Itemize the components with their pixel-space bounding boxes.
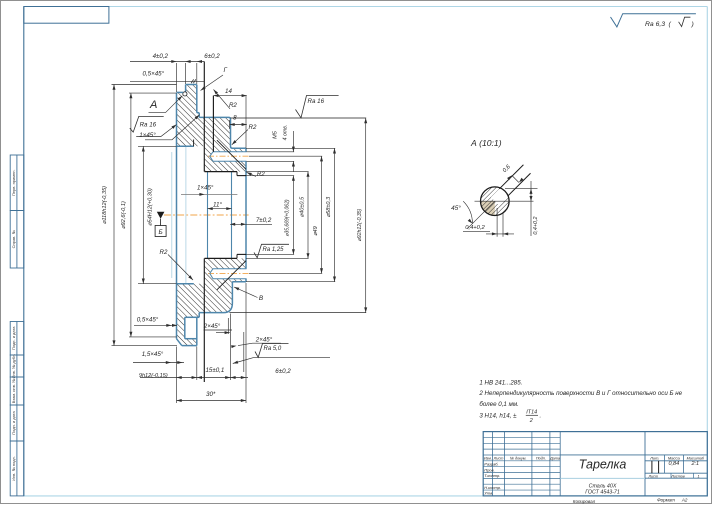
svg-text:3 Н14, h14, ±: 3 Н14, h14, ± [479, 413, 517, 420]
svg-text:⌀54Н12(+0,30): ⌀54Н12(+0,30) [147, 188, 153, 226]
svg-text:R2: R2 [160, 249, 168, 256]
svg-text:Масштаб: Масштаб [687, 457, 705, 461]
svg-text:А (10:1): А (10:1) [470, 138, 502, 148]
svg-text:Инв. № дубл.: Инв. № дубл. [11, 354, 16, 379]
svg-text:): ) [691, 21, 694, 28]
svg-text:R2: R2 [257, 171, 265, 178]
svg-text:Тарелка: Тарелка [579, 458, 627, 472]
svg-text:14: 14 [225, 88, 232, 95]
svg-text:IT14: IT14 [526, 410, 537, 416]
svg-text:1,5×45°: 1,5×45° [142, 351, 164, 358]
svg-text:0,4+0,2: 0,4+0,2 [533, 216, 539, 234]
svg-text:Подп. и дата: Подп. и дата [11, 326, 16, 350]
svg-text:1×45°: 1×45° [139, 132, 156, 139]
svg-text:Подп.: Подп. [536, 457, 546, 461]
svg-text:более 0,1 мм.: более 0,1 мм. [479, 401, 518, 408]
svg-text:Лист: Лист [648, 475, 659, 479]
svg-text:9h12(-0,15): 9h12(-0,15) [139, 373, 168, 379]
svg-text:1×45°: 1×45° [197, 185, 214, 192]
svg-text:Ra 6,3: Ra 6,3 [645, 21, 665, 28]
svg-text:⌀58±0,3: ⌀58±0,3 [326, 196, 332, 217]
svg-text:Лист: Лист [493, 457, 504, 461]
svg-text:2 Неперпендикулярность поверхн: 2 Неперпендикулярность поверхности В и Г… [478, 390, 682, 397]
svg-text:Г: Г [223, 67, 227, 74]
svg-text:Ra 16: Ra 16 [140, 122, 157, 129]
svg-text:Т.контр.: Т.контр. [484, 473, 500, 478]
svg-text:Инв. № подл.: Инв. № подл. [11, 456, 16, 481]
svg-text:R2: R2 [229, 102, 237, 109]
svg-text:1 НВ 241...285.: 1 НВ 241...285. [479, 379, 522, 386]
svg-text:0,84: 0,84 [668, 461, 679, 467]
svg-text:Н.контр.: Н.контр. [484, 485, 501, 490]
svg-text:⌀49: ⌀49 [313, 226, 319, 236]
svg-text:30*: 30* [206, 391, 216, 398]
svg-text:Ra 1,25: Ra 1,25 [263, 247, 285, 253]
svg-text:4 отв.: 4 отв. [283, 125, 289, 141]
svg-text:0,4+0,2: 0,4+0,2 [465, 225, 485, 231]
svg-text:№ докум.: № докум. [510, 457, 527, 461]
svg-text:Изм.: Изм. [484, 457, 492, 461]
svg-text:Взам. инв. №: Взам. инв. № [11, 379, 16, 404]
svg-text:Ra 5,0: Ra 5,0 [264, 346, 282, 352]
svg-text:11°: 11° [213, 201, 222, 208]
svg-text:6±0,2: 6±0,2 [275, 368, 291, 375]
svg-text:⌀92h12(-0,35): ⌀92h12(-0,35) [357, 208, 363, 241]
svg-text:R2: R2 [249, 124, 257, 131]
svg-text:2×45°: 2×45° [203, 323, 221, 330]
svg-text:7±0,2: 7±0,2 [256, 217, 272, 224]
svg-text:⌀118h12(-0,35): ⌀118h12(-0,35) [102, 186, 108, 224]
svg-text:Подп. и дата: Подп. и дата [11, 410, 16, 434]
svg-text:А: А [149, 99, 157, 111]
svg-text:А2: А2 [681, 498, 688, 503]
svg-text:6±0,2: 6±0,2 [204, 53, 220, 60]
svg-text:Утв.: Утв. [484, 491, 493, 496]
svg-text:Пров.: Пров. [484, 467, 495, 472]
svg-text:ГОСТ 4543-71: ГОСТ 4543-71 [585, 490, 620, 496]
svg-text:Копировал: Копировал [573, 499, 596, 504]
svg-text:8: 8 [233, 115, 237, 122]
svg-text:0,5×45°: 0,5×45° [143, 71, 165, 78]
svg-text:.: . [540, 413, 542, 420]
svg-text:Б: Б [159, 229, 163, 236]
svg-text:⌀35,669(+0,062): ⌀35,669(+0,062) [284, 199, 290, 236]
svg-text:Масса: Масса [668, 456, 681, 461]
svg-text:⌀92,6(-0,1): ⌀92,6(-0,1) [121, 201, 127, 229]
svg-text:⌀40±0,5: ⌀40±0,5 [299, 196, 305, 217]
svg-text:4±0,2: 4±0,2 [153, 53, 169, 60]
svg-text:Листов: Листов [670, 475, 685, 479]
svg-text:М5: М5 [273, 130, 279, 139]
svg-text:0,5×45°: 0,5×45° [137, 317, 159, 324]
svg-text:45°: 45° [451, 204, 461, 212]
svg-text:15±0,1: 15±0,1 [205, 367, 224, 374]
svg-text:Дата: Дата [549, 457, 560, 461]
svg-text:1: 1 [697, 475, 699, 479]
svg-text:2:1: 2:1 [690, 461, 699, 467]
svg-text:В: В [259, 295, 264, 302]
svg-text:Разраб.: Разраб. [484, 461, 498, 466]
svg-text:2: 2 [529, 418, 533, 424]
svg-text:Справ. №: Справ. № [11, 230, 16, 248]
svg-text:Ra 16: Ra 16 [308, 98, 325, 105]
svg-text:2×45°: 2×45° [255, 337, 273, 344]
svg-text:Лит.: Лит. [649, 456, 659, 461]
svg-text:Перв. примен.: Перв. примен. [11, 169, 16, 196]
svg-text:Формат: Формат [657, 498, 675, 503]
